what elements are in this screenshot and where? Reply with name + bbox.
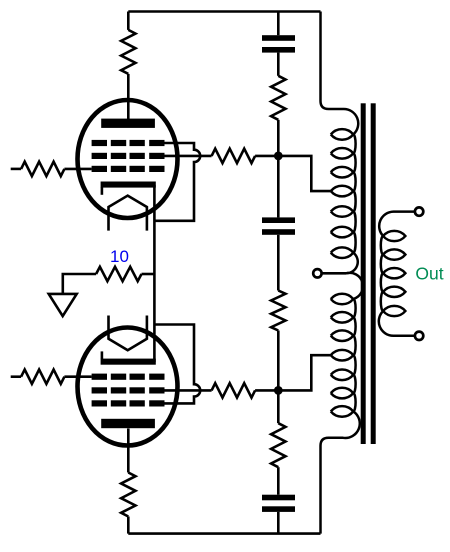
wire rail to C1	[277, 12, 280, 36]
transformer T1 primary loops	[331, 129, 354, 140]
wire center tap	[322, 272, 346, 275]
node A junction	[274, 152, 283, 161]
resistor R4	[271, 76, 285, 120]
tube V1 cathode	[101, 182, 156, 188]
wire R3 to node A	[255, 155, 278, 158]
wire R1 to plate V1	[127, 74, 130, 120]
resistor R7 screen bottom	[212, 383, 256, 397]
wire R4 to node A	[277, 120, 280, 156]
resistor R3 screen top	[212, 149, 256, 163]
resistor R8 grid stopper bottom	[21, 370, 64, 384]
wire R6 to node B	[277, 331, 280, 391]
wire cathode to R5	[142, 273, 155, 276]
resistor R5 cathode bias 10	[96, 267, 141, 281]
tube V1 heater	[109, 196, 147, 231]
capacitor C2	[262, 217, 295, 223]
wire R10 to bottom rail	[127, 517, 130, 534]
resistor R1 plate load top	[121, 30, 135, 74]
wire V1 g3 suppressor to cathode	[154, 143, 200, 221]
terminal Out bottom	[415, 332, 423, 340]
tube V1 envelope	[78, 100, 178, 218]
capacitor C3	[262, 495, 295, 501]
wire V2 grid input	[11, 375, 21, 378]
transformer T1 secondary winding	[379, 212, 415, 336]
wire node B to R9	[277, 390, 280, 423]
wire V2 g2 screen	[165, 389, 212, 392]
wire R2 to g1	[64, 168, 91, 171]
tube V2 envelope	[78, 328, 178, 446]
wire node A to UL tap top	[278, 156, 331, 191]
svg-text:10: 10	[110, 247, 129, 266]
resistor R10 plate load bottom	[121, 473, 135, 517]
wire V2 g3 suppressor to cathode	[154, 325, 200, 404]
resistor R6	[271, 291, 285, 331]
wire top rail B+	[128, 10, 320, 13]
svg-text:Out: Out	[415, 263, 443, 283]
wire R7 to node B	[255, 389, 278, 392]
tube V2 plate	[101, 419, 155, 428]
terminal center tap	[313, 269, 321, 277]
wire R5 to ground	[63, 274, 96, 294]
resistor R2 grid stopper top	[21, 162, 64, 176]
tube V2 cathode stub	[101, 351, 104, 359]
wire cathode bus	[153, 185, 156, 362]
wire C1 to R4	[277, 53, 280, 76]
tube V2 cathode	[101, 359, 156, 365]
wire V1 grid input	[11, 168, 21, 171]
wire node B to UL tap bottom	[278, 355, 331, 390]
wire C3 to bottom rail	[277, 512, 280, 534]
transformer T1 core	[361, 103, 366, 444]
transformer T1 secondary loops	[383, 231, 405, 241]
wire V2 plate to R10	[127, 429, 130, 473]
tube V2 heater	[109, 316, 147, 351]
tube V1 plate	[101, 119, 155, 128]
wire R8 to g1	[64, 375, 91, 378]
wire node A to C2	[277, 156, 280, 218]
node B junction	[274, 386, 283, 395]
wire bottom rail	[128, 532, 320, 535]
wire C2 to R6	[277, 235, 280, 291]
ground	[49, 294, 77, 316]
terminal Out top	[415, 207, 423, 215]
wire R9 to C3	[277, 467, 280, 495]
wire V1 g2 screen	[165, 155, 212, 158]
wire rail to R1	[127, 12, 130, 30]
tube V1 cathode stub	[101, 187, 104, 195]
tube V2 grids g1 g2 g3	[92, 374, 107, 380]
capacitor C1	[262, 35, 295, 41]
resistor R9	[271, 423, 285, 467]
tube V1 grids g1 g2 g3	[92, 140, 107, 146]
transformer T1 primary winding	[321, 12, 364, 534]
